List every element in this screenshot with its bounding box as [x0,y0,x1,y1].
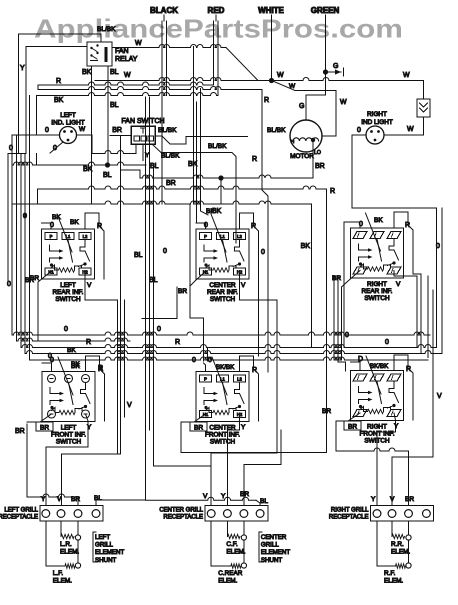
svg-text:BR: BR [178,288,187,295]
svg-text:LEFT: LEFT [95,534,110,541]
svg-text:Y: Y [241,424,246,431]
svg-text:0: 0 [50,222,54,229]
svg-text:Y: Y [87,424,92,431]
svg-text:BL: BL [260,498,268,505]
wire V mid line [125,300,133,417]
svg-text:0: 0 [385,339,389,346]
svg-text:RELAY: RELAY [115,56,138,63]
wire Y below fan switch [143,144,150,161]
shunt wire [241,521,246,568]
wire BR right drop [336,423,409,506]
right rear infinite switch S4 label [362,281,393,302]
wire W bus y89 [38,85,262,90]
svg-text:BL: BL [94,495,102,502]
svg-text:H1: H1 [203,412,209,417]
svg-text:V: V [241,282,246,289]
svg-text:BR: BR [30,275,39,282]
junction motor LO [311,138,315,142]
svg-text:R: R [405,222,410,229]
svg-text:C.F.: C.F. [226,541,238,548]
wire white diag to motor [272,81,348,121]
svg-text:CENTER: CENTER [209,282,236,289]
wire BR bus y177 [121,170,314,187]
left grill receptacle J1 [40,506,103,522]
svg-text:LEFT: LEFT [60,112,76,119]
wire W from left light [77,126,93,153]
svg-text:RIGHT GRILL: RIGHT GRILL [331,508,369,514]
svg-text:LEFT GRILL: LEFT GRILL [4,508,38,514]
center grill receptacle J2 label [159,508,203,521]
wire BL bus y165 [12,154,159,180]
svg-text:R: R [252,156,257,163]
wire BL/BK into motor [267,127,286,134]
svg-text:0: 0 [261,249,265,256]
wire bus y335 [12,326,430,335]
svg-text:R: R [251,223,256,230]
node GREEN [311,6,340,15]
svg-text:W: W [289,83,296,90]
svg-text:FAN SWITCH: FAN SWITCH [121,118,164,125]
svg-text:C.REAR: C.REAR [218,570,243,577]
svg-text:Y: Y [371,496,376,503]
wire x221 branch [220,178,222,204]
wire Y left [19,34,26,154]
svg-text:P: P [50,234,53,239]
left rear infinite switch S2 [42,229,95,279]
wire 0 below light [50,142,63,153]
svg-text:Y: Y [20,65,25,72]
svg-text:BK: BK [374,217,383,224]
fan relay K1 [87,42,112,66]
wire BK lead relay [82,66,92,204]
svg-text:0: 0 [7,281,11,288]
svg-text:BK: BK [70,219,79,226]
left ind light label [51,112,84,127]
wire trunk x153 center V [154,166,211,466]
shunt wire [406,521,411,568]
svg-text:RIGHT: RIGHT [367,424,387,431]
receptacle lead labels [41,491,414,505]
svg-text:0: 0 [345,332,349,339]
wire bus y353 [25,339,442,354]
center front infinite switch S6 [196,372,249,422]
right front infinite switch S7 label [359,424,394,445]
node WHITE [258,6,284,15]
svg-text:R: R [252,367,257,374]
svg-text:V: V [437,393,442,400]
svg-text:BL/BK: BL/BK [158,127,177,134]
wires at right rear switch [332,212,421,360]
wire V right to receptacle [392,457,433,506]
wire R riser x262 [252,90,269,257]
node RED [208,6,225,21]
C.F. ELEM. [226,521,245,556]
left indicator light DS1 [60,127,77,144]
wire fuse to W bus [423,81,425,100]
center rear infinite switch S3 label [207,282,238,303]
wire right mid cluster [322,189,346,453]
svg-text:BR: BR [348,424,357,431]
svg-text:ELEM.: ELEM. [60,549,79,556]
svg-text:BK: BK [206,208,215,215]
svg-text:H1: H1 [48,270,54,275]
wire trunk x193 drop [193,47,195,205]
svg-text:GRILL: GRILL [95,542,113,549]
svg-text:SWITCH: SWITCH [56,439,82,446]
junction BR [218,175,223,180]
svg-text:0: 0 [436,243,440,250]
wire relay left input [26,46,86,48]
svg-text:W: W [340,99,347,106]
node BLACK [150,6,178,21]
wire white lead [271,15,273,81]
wire motor right W [322,121,336,136]
svg-text:G: G [299,103,304,110]
svg-text:BR: BR [15,428,25,435]
svg-text:W: W [135,40,142,47]
svg-text:RECEPTACLE: RECEPTACLE [0,515,38,521]
svg-text:REAR INF.: REAR INF. [53,289,84,296]
shunt wire [75,521,80,568]
center grill receptacle J2 [205,506,268,522]
svg-text:G: G [333,63,338,70]
wire x177 stub [142,287,177,319]
wire W relay to white [112,40,258,81]
wires at center rear switch [178,208,277,506]
svg-text:W: W [79,126,86,133]
svg-text:Y: Y [394,423,399,430]
ground arrow G [326,63,344,76]
svg-text:SWITCH: SWITCH [55,296,81,303]
svg-text:GREEN: GREEN [311,6,340,15]
junction white [269,78,274,83]
svg-text:L.R.: L.R. [60,541,72,548]
svg-text:L2: L2 [237,377,242,382]
wire trunk x190 [190,204,204,361]
shunt label CENTER [259,532,290,564]
svg-text:BR: BR [166,180,176,187]
wire V right trunk [432,290,434,457]
svg-text:R: R [86,339,91,346]
svg-text:IND LIGHT: IND LIGHT [361,119,393,126]
wire G to motor [299,72,326,120]
svg-text:L.F.: L.F. [53,570,64,577]
svg-text:0: 0 [64,326,68,333]
right grill receptacle J3 [371,506,434,522]
svg-text:W: W [403,72,410,79]
svg-text:0: 0 [359,221,363,228]
svg-text:0: 0 [50,357,54,364]
wire BL/BK to relay top [19,26,117,42]
svg-text:SWITCH: SWITCH [210,296,236,303]
wire BR to fan switch [110,127,131,136]
svg-text:GRILL: GRILL [261,542,279,549]
svg-text:FRONT INF.: FRONT INF. [51,432,86,439]
svg-text:V: V [390,496,395,503]
right rear infinite switch S4 [351,228,404,278]
wire green lead [325,15,327,72]
wire trunk x149 [149,97,151,430]
svg-text:R: R [97,223,102,230]
svg-text:H1: H1 [203,270,209,275]
svg-text:R: R [98,366,103,373]
svg-text:V: V [127,402,132,409]
svg-text:RED: RED [208,6,225,15]
svg-text:Y: Y [41,496,46,503]
svg-text:P: P [204,234,207,239]
svg-text:BR: BR [40,425,49,432]
motor M1 [290,120,322,152]
wire trunk x262 268 [267,229,269,372]
svg-text:0: 0 [9,145,13,152]
svg-text:BR: BR [71,496,80,503]
wire BK bus y204 [12,201,312,348]
svg-text:BR: BR [322,408,331,415]
wire right cluster [428,208,442,400]
wire 0 to left light [37,127,60,135]
svg-text:BL: BL [110,69,119,76]
fan switch S1 [131,126,155,144]
svg-text:BL: BL [150,163,159,170]
svg-text:L2: L2 [237,234,242,239]
svg-text:BK/BK: BK/BK [216,364,235,371]
svg-text:MOTOR: MOTOR [290,153,314,160]
svg-text:0: 0 [157,326,161,333]
svg-text:R: R [175,339,180,346]
svg-text:ELEM.: ELEM. [391,549,410,556]
svg-text:REAR INF.: REAR INF. [362,288,393,295]
wire BK bus y95 [37,93,219,136]
svg-text:BL: BL [110,102,119,109]
svg-text:ELEM.: ELEM. [226,549,245,556]
svg-text:R: R [56,78,61,85]
svg-text:BR: BR [315,163,325,170]
wire fan switch lower-right diag [152,143,236,243]
svg-text:SWITCH: SWITCH [364,295,390,302]
C.REAR ELEM. [211,521,243,585]
wire trunk x120 [62,136,121,506]
junction BL [105,162,110,167]
wire BL lead relay [108,66,119,165]
svg-text:H: H [291,139,294,144]
svg-text:FAN: FAN [115,48,129,55]
right indicator light DS2 [366,126,384,144]
svg-text:BR: BR [405,496,414,503]
wire bus y360 [30,353,429,372]
svg-text:R: R [406,366,411,373]
svg-text:0: 0 [23,213,27,220]
svg-text:W: W [124,72,131,79]
motor label [290,150,321,160]
svg-text:BK: BK [82,69,92,76]
svg-text:RIGHT: RIGHT [367,281,387,288]
svg-text:BL/BK: BL/BK [208,143,227,150]
right front infinite switch S7 [351,371,404,421]
svg-text:RECEPTACLE: RECEPTACLE [163,515,203,521]
svg-text:CENTER GRILL: CENTER GRILL [159,508,203,514]
fan relay label [115,48,138,63]
svg-text:R: R [330,188,335,195]
svg-text:P: P [204,377,207,382]
svg-text:LEFT: LEFT [61,425,77,432]
svg-text:0: 0 [163,248,167,255]
svg-text:ELEM.: ELEM. [53,578,72,585]
svg-text:R.R.: R.R. [391,541,404,548]
wire BL/BK from fan switch [155,127,248,144]
left front infinite switch S5 label [51,425,86,446]
svg-text:BL: BL [134,252,143,259]
wire BR center drop [181,424,327,506]
wire bus y191 [38,186,327,204]
svg-text:BK/BK: BK/BK [370,363,389,370]
fuse F1 [417,99,430,117]
svg-text:RIGHT: RIGHT [367,111,387,118]
R.R. ELEM. [391,521,410,556]
junction green [323,69,328,74]
wire black leads [162,21,167,204]
svg-text:BK: BK [83,166,93,173]
wire BL bus to center [146,497,261,505]
wire left cluster [7,96,37,361]
svg-text:L2: L2 [83,234,88,239]
svg-text:ELEM.: ELEM. [218,578,237,585]
svg-text:FRONT INF.: FRONT INF. [205,432,240,439]
svg-text:ELEM.: ELEM. [384,578,403,585]
wire trunk x145 [96,97,146,506]
svg-text:BR: BR [112,127,122,134]
svg-text:LEFT: LEFT [60,282,76,289]
wire 0 to right light [352,127,366,135]
svg-text:0: 0 [53,145,57,152]
svg-text:REAR INF.: REAR INF. [207,289,238,296]
wire BR from motor [313,140,325,178]
labels mid drops [134,248,167,284]
svg-text:0: 0 [204,222,208,229]
svg-text:R: R [264,97,269,104]
wires at right front switch [336,355,413,506]
svg-text:R.F.: R.F. [384,570,396,577]
shunt label LEFT [93,532,124,564]
right ind light label [361,111,393,126]
wire bus y347 [21,332,437,354]
center rear infinite switch S3 [196,229,249,279]
svg-text:ELEMENT: ELEMENT [261,549,290,556]
wires at center front switch [181,356,259,506]
svg-text:BR: BR [194,425,203,432]
svg-text:Y: Y [221,493,226,500]
svg-text:RECEPTACLE: RECEPTACLE [329,515,369,521]
svg-text:SHUNT: SHUNT [261,557,283,564]
svg-text:BK: BK [67,347,76,354]
svg-text:0: 0 [357,127,361,134]
wire bus y341 [17,338,131,346]
wire red leads [214,21,219,96]
wire left x26 down [25,47,27,154]
svg-text:CENTER: CENTER [261,534,287,541]
R.F. ELEM. [377,521,406,585]
wire W bus y79 [95,72,424,81]
svg-text:V: V [396,281,401,288]
svg-text:SWITCH: SWITCH [210,439,236,446]
wire BR left drop [15,424,78,506]
svg-text:WHITE: WHITE [258,6,284,15]
svg-text:0: 0 [208,357,212,364]
svg-text:0: 0 [45,127,49,134]
wire trunk x196 200 [197,89,209,224]
svg-text:V: V [57,496,62,503]
svg-text:BL/BK: BL/BK [161,153,180,160]
svg-text:W: W [277,72,284,79]
svg-text:BK: BK [52,214,61,221]
L.F. ELEM. [46,521,75,585]
svg-text:0: 0 [192,357,196,364]
left grill receptacle J1 label [0,508,39,521]
svg-text:SHUNT: SHUNT [95,557,117,564]
wires at left rear switch [30,213,118,454]
svg-text:BR: BR [332,275,341,282]
svg-text:V: V [87,282,92,289]
wire R bus y85 [38,78,214,85]
svg-text:BL/BK: BL/BK [97,26,116,33]
svg-text:ELEMENT: ELEMENT [95,549,124,556]
svg-text:BL: BL [103,172,112,179]
left front infinite switch S5 [42,372,95,422]
left rear infinite switch S2 label [53,282,84,303]
svg-text:D: D [358,356,363,363]
wires at left front switch [27,356,105,506]
svg-text:BR: BR [240,491,249,498]
svg-text:BK: BK [54,97,64,104]
svg-text:BLACK: BLACK [150,6,178,15]
wire bus y153 [92,144,136,154]
svg-text:BK: BK [71,363,80,370]
right grill receptacle J3 label [329,508,369,521]
center front infinite switch S6 label [205,425,240,446]
wire W right light to fuse [384,117,424,135]
svg-text:BK: BK [301,243,311,250]
L.R. ELEM. [60,521,79,556]
wire x207 front 0 [207,348,209,362]
svg-text:LO: LO [314,150,321,156]
svg-text:V: V [203,493,208,500]
svg-text:BL/BK: BL/BK [267,127,286,134]
svg-text:W: W [407,126,414,133]
wire right light drop [352,135,437,290]
